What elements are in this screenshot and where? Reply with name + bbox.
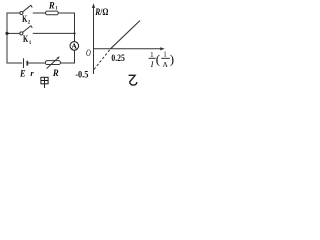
svg-text:1: 1 xyxy=(163,50,167,58)
label yi (Chinese: second) xyxy=(129,75,137,85)
x-axis xyxy=(94,47,165,50)
svg-text:R: R xyxy=(52,69,59,79)
wire middle right xyxy=(33,32,75,34)
wire top-left corner + left rail xyxy=(7,13,22,63)
wire battery to rheostat xyxy=(27,62,45,64)
switch K1 xyxy=(20,26,32,46)
svg-text:E: E xyxy=(19,69,25,79)
ammeter A xyxy=(70,42,79,51)
svg-text:O: O xyxy=(86,48,91,58)
svg-text:): ) xyxy=(170,52,174,67)
wire top between K2 and R1 xyxy=(33,12,46,14)
svg-text:1: 1 xyxy=(150,50,154,59)
y-axis xyxy=(92,3,109,74)
wire top right segment + right rail upper xyxy=(58,13,74,42)
x-axis unit label 1/I (1/A) xyxy=(149,50,174,69)
switch K2 xyxy=(20,5,32,25)
rheostat R xyxy=(45,56,60,79)
graph line solid xyxy=(111,21,141,49)
svg-text:2: 2 xyxy=(28,21,31,26)
label jia (Chinese: first) xyxy=(41,77,48,88)
svg-text:A: A xyxy=(71,42,77,51)
battery E r xyxy=(19,58,34,79)
graph line dashed extension xyxy=(94,49,111,70)
svg-text:-0.5: -0.5 xyxy=(75,70,89,80)
svg-text:R: R xyxy=(48,1,55,11)
svg-text:A: A xyxy=(162,60,168,69)
svg-text:I: I xyxy=(150,59,155,69)
svg-text:K: K xyxy=(23,34,28,44)
svg-text:r: r xyxy=(30,68,34,78)
svg-text:1: 1 xyxy=(55,7,58,12)
svg-text:1: 1 xyxy=(29,41,32,46)
wire middle left xyxy=(7,32,20,34)
junction node left xyxy=(5,32,8,35)
svg-text:K: K xyxy=(22,14,27,24)
resistor R1 xyxy=(46,1,59,15)
svg-text:R/Ω: R/Ω xyxy=(94,7,108,17)
wire bottom right + right rail lower xyxy=(60,50,74,63)
svg-text:(: ( xyxy=(156,52,160,67)
junction node right xyxy=(73,32,75,34)
svg-text:0.25: 0.25 xyxy=(111,53,125,63)
